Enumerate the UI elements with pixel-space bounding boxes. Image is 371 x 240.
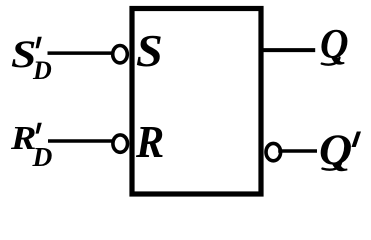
prime tick of R'D label — [36, 123, 42, 134]
wire R input — [48, 139, 112, 143]
wire S input — [48, 51, 113, 55]
wire Q' output — [278, 149, 317, 153]
label R of R'D input — [11, 122, 36, 156]
swash tail of Q label — [322, 58, 340, 65]
swash tail of Q' label — [323, 163, 342, 170]
bubble R input — [113, 135, 128, 152]
prime tick of S'D label — [36, 37, 42, 48]
pin label S — [136, 29, 163, 74]
pin label R — [136, 120, 164, 165]
bubble S input — [113, 46, 128, 63]
label S of S'D input — [11, 35, 36, 74]
bubble Q' output — [266, 143, 281, 160]
wire Q output — [263, 48, 315, 52]
label Q output — [320, 24, 349, 67]
prime tick of Q' label — [352, 132, 362, 148]
latch body U1 — [132, 9, 261, 195]
subscript D of R'D input — [33, 143, 53, 171]
subscript D of S'D input — [33, 58, 52, 84]
label Q of Q' output — [319, 129, 352, 172]
